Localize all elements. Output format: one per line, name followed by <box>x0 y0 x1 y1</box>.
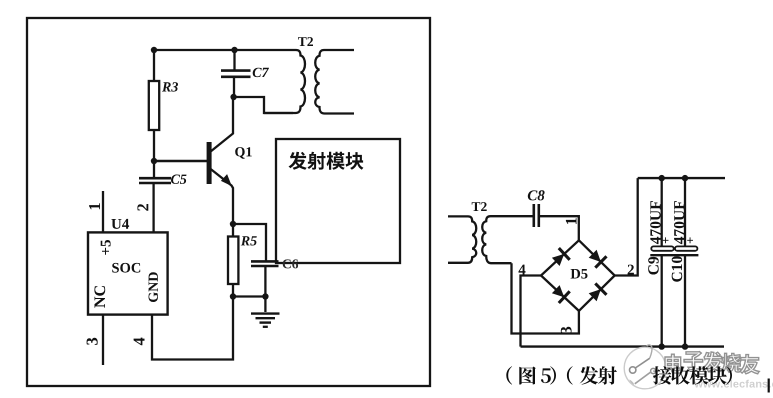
bridge rectifier D5 diamond <box>541 240 615 311</box>
pin number 1 (U4) <box>89 203 100 209</box>
polarity + C10 <box>687 237 693 243</box>
wire bridge node2 to top rail <box>615 178 638 275</box>
node C9 bottom junction <box>659 343 665 349</box>
wire R3 to base node <box>153 130 155 161</box>
node R5 bottom junction <box>230 293 236 299</box>
node C9 top junction <box>659 175 665 181</box>
label U4 <box>111 219 129 229</box>
wire C7 to collector node <box>233 77 235 97</box>
node label 4 (bridge) <box>519 265 526 275</box>
pin number 4 (U4) <box>134 338 145 346</box>
pin name GND <box>148 272 157 302</box>
node junction C7-bus <box>231 47 237 53</box>
pin 1 lead <box>102 191 104 232</box>
wire T2 rx to bridge node3 <box>512 263 579 333</box>
watermark logo circle <box>624 345 666 389</box>
label SOC <box>112 263 140 273</box>
emitter arrowhead <box>221 174 232 186</box>
diode D5-c (4 to 3) <box>552 285 564 297</box>
wire bottom node pair <box>233 295 265 297</box>
wire C8 to bridge node1 <box>539 216 579 240</box>
label C10 <box>672 256 683 281</box>
label T2 (receiver) <box>472 202 487 211</box>
value 470UF (C9) <box>650 201 661 244</box>
node label 3 (bridge) <box>561 327 572 334</box>
caption （图5）（发射、接收模块） <box>506 366 732 384</box>
label C8 <box>528 190 545 200</box>
label Q1 <box>235 147 252 159</box>
pin name NC <box>94 286 105 308</box>
ground <box>251 297 280 327</box>
pin name +5 <box>101 240 111 255</box>
capacitor C9 negative plate <box>650 254 674 256</box>
wire node to R5 <box>232 224 234 237</box>
wire bus to R3 <box>153 50 155 81</box>
label 发射模块 <box>289 152 307 170</box>
diode D5-b (1 to 2) <box>589 250 601 262</box>
label R3 <box>162 82 178 91</box>
label C7 <box>253 68 269 77</box>
wire bridge node4 to bottom rail <box>521 276 542 347</box>
frame: transmitter schematic border <box>27 18 430 386</box>
capacitor C5 <box>139 178 171 183</box>
wire C9 to bottom rail <box>661 255 663 346</box>
wire base <box>154 160 207 162</box>
wire top rail to C10 <box>684 178 686 247</box>
capacitor C7 <box>221 71 251 77</box>
label R5 <box>241 236 257 245</box>
pin number 2 (U4) <box>137 204 148 211</box>
wire C5 to pin2 <box>152 183 154 232</box>
label T2 (transmitter) <box>298 37 313 46</box>
transistor Q1 emitter <box>210 169 233 225</box>
watermark url <box>695 380 773 388</box>
wire R5 to bottom node <box>232 284 234 297</box>
capacitor C10 positive plate <box>675 246 697 250</box>
wire R5 node to C6 <box>233 224 266 261</box>
node collector junction <box>230 94 236 100</box>
label D5 <box>571 269 588 279</box>
capacitor C9 positive plate <box>651 246 673 250</box>
transformer T2 secondary winding <box>315 50 354 114</box>
node label 1 (bridge) <box>566 218 577 224</box>
capacitor C10 negative plate <box>674 254 698 256</box>
pin 3 lead <box>102 315 104 365</box>
capacitor C8 <box>534 204 539 227</box>
label C9 <box>648 257 659 275</box>
wire C10 to bottom rail <box>684 255 686 346</box>
wire node to C5 <box>153 161 155 177</box>
node label 2 (bridge) <box>628 265 634 275</box>
transistor Q1 bar <box>207 142 212 184</box>
label C6 <box>283 259 298 268</box>
node base junction <box>151 158 157 164</box>
polarity + C9 <box>663 237 669 243</box>
wire C6 to bottom node <box>264 266 266 297</box>
diode D5-d (3 to 2) <box>589 289 601 301</box>
node junction R3-bus <box>151 47 157 53</box>
resistor R5 <box>228 237 238 285</box>
node C10 top junction <box>682 175 688 181</box>
wire bottom rail <box>521 345 725 347</box>
node C10 bottom junction <box>682 343 688 349</box>
capacitor C6 <box>251 261 279 266</box>
wire bus to C7 <box>233 50 235 70</box>
label C5 <box>171 175 187 184</box>
diode D5-a (4 to 1) <box>552 254 564 266</box>
transformer T2 rx primary winding <box>448 216 476 262</box>
wire top rail <box>638 177 725 179</box>
wire top rail to C9 <box>661 178 663 247</box>
block 发射模块 box <box>276 139 400 263</box>
resistor R3 <box>149 81 159 130</box>
node C6 bottom junction <box>262 293 268 299</box>
value 470UF (C10) <box>674 201 685 244</box>
transformer T2 rx secondary winding <box>482 216 533 263</box>
pin number 3 (U4) <box>87 338 98 345</box>
transformer T2 primary winding <box>264 50 305 113</box>
node R5 top junction <box>230 221 236 227</box>
watermark text 电子发烧友 <box>665 352 759 374</box>
ic U4 box <box>88 232 168 314</box>
wire collector node to T2 primary <box>234 97 293 113</box>
wire Vcc bus <box>154 49 296 51</box>
wire pin4 to R5 bottom node <box>152 297 233 360</box>
text cursor <box>768 379 770 393</box>
transistor Q1 collector <box>210 97 233 152</box>
